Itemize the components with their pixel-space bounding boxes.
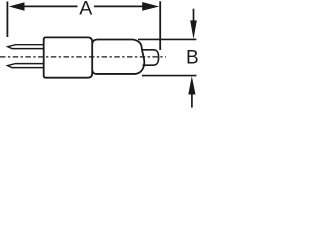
molded lens tip (nipple) on dome face xyxy=(143,50,159,65)
wire left extension line xyxy=(6,2,8,38)
svg-text:A: A xyxy=(79,0,92,19)
centerline (lamp axis, dash-dot) xyxy=(0,56,166,58)
bottom contact pin xyxy=(8,64,44,68)
wire dimension-A line right segment xyxy=(94,5,147,7)
wire down arrow shaft xyxy=(193,9,195,22)
wire dimension-A line left segment xyxy=(21,5,78,7)
wire B top extension line xyxy=(138,38,196,40)
wire B bottom extension line xyxy=(142,75,196,77)
right arrowhead of A xyxy=(142,2,159,11)
wire right extension line xyxy=(159,1,161,50)
wire up arrow shaft xyxy=(191,94,193,108)
top contact pin xyxy=(8,45,44,49)
up arrowhead of B xyxy=(188,76,195,95)
glass envelope (cylinder with rounded end face) xyxy=(92,40,144,74)
svg-text:B: B xyxy=(186,48,199,69)
left arrowhead of A xyxy=(9,2,25,11)
wedge base xyxy=(44,37,92,77)
down arrowhead of B xyxy=(190,20,197,39)
